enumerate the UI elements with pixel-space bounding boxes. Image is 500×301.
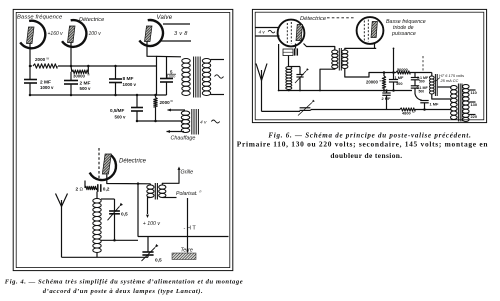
svg-text:Fig. 6. — Schéma de principe d: Fig. 6. — Schéma de principe du poste-va… — [268, 131, 471, 139]
svg-text:3 v 8: 3 v 8 — [174, 31, 188, 37]
svg-text:1000 v: 1000 v — [40, 85, 54, 90]
svg-text:300: 300 — [396, 81, 403, 86]
svg-text:500: 500 — [419, 80, 425, 84]
svg-text:- H T: - H T — [184, 226, 197, 232]
svg-text:n: n — [200, 190, 202, 194]
svg-text:Détectrice: Détectrice — [79, 17, 104, 23]
svg-text:Détectrice: Détectrice — [300, 16, 327, 22]
svg-text:2: 2 — [76, 187, 79, 193]
svg-text:20000: 20000 — [366, 80, 379, 85]
svg-text:100 v: 100 v — [89, 31, 102, 37]
svg-text:Terre: Terre — [181, 247, 193, 253]
svg-text:puissance: puissance — [391, 31, 416, 37]
svg-text:50000: 50000 — [397, 67, 408, 72]
svg-text:Détectrice: Détectrice — [119, 158, 147, 164]
svg-text:4 v: 4 v — [259, 29, 266, 34]
svg-text:1000 v: 1000 v — [123, 82, 137, 87]
svg-text:Grille: Grille — [181, 170, 194, 176]
svg-text:110: 110 — [471, 90, 477, 95]
svg-text:500 v: 500 v — [115, 115, 127, 120]
svg-text:0,2: 0,2 — [103, 187, 110, 193]
svg-text:0,5: 0,5 — [155, 258, 162, 264]
svg-text:2 MF: 2 MF — [382, 96, 391, 101]
svg-text:Chauffage: Chauffage — [171, 136, 196, 142]
svg-text:30000: 30000 — [73, 73, 86, 78]
svg-text:500: 500 — [419, 89, 425, 93]
svg-text:2000: 2000 — [160, 100, 171, 105]
svg-text:0,5: 0,5 — [121, 211, 128, 217]
svg-text:130: 130 — [471, 102, 478, 107]
svg-text:25 mA CC: 25 mA CC — [440, 78, 459, 83]
svg-text:1 MF: 1 MF — [430, 102, 439, 107]
svg-text:220: 220 — [471, 114, 478, 119]
svg-text:2000: 2000 — [35, 57, 46, 62]
svg-text:1000: 1000 — [167, 74, 177, 79]
svg-text:0,5/MF: 0,5/MF — [110, 108, 124, 113]
svg-text:Primaire 110, 130 ou 220 volts: Primaire 110, 130 ou 220 volts; secondai… — [237, 140, 488, 149]
svg-text:4 v: 4 v — [200, 120, 207, 126]
svg-text:Basse fréquence: Basse fréquence — [17, 15, 63, 21]
svg-text:1 MF: 1 MF — [395, 75, 404, 80]
svg-text:Valve: Valve — [157, 15, 173, 21]
svg-text:d’accord d’un poste à deux lam: d’accord d’un poste à deux lampes (type … — [43, 288, 204, 295]
svg-text:doubleur de tension.: doubleur de tension. — [330, 151, 402, 160]
svg-text:+160 v: +160 v — [48, 31, 64, 37]
svg-text:Ω: Ω — [80, 187, 84, 192]
svg-text:4800: 4800 — [402, 111, 411, 116]
svg-text:Fig. 4. — Schéma très simplifi: Fig. 4. — Schéma très simplifié du systè… — [5, 278, 244, 285]
svg-text:500 v: 500 v — [80, 86, 92, 91]
svg-text:8 MF: 8 MF — [123, 76, 134, 82]
svg-text:+ 100 v: + 100 v — [143, 221, 161, 227]
svg-text:Polarisat.: Polarisat. — [176, 191, 198, 197]
